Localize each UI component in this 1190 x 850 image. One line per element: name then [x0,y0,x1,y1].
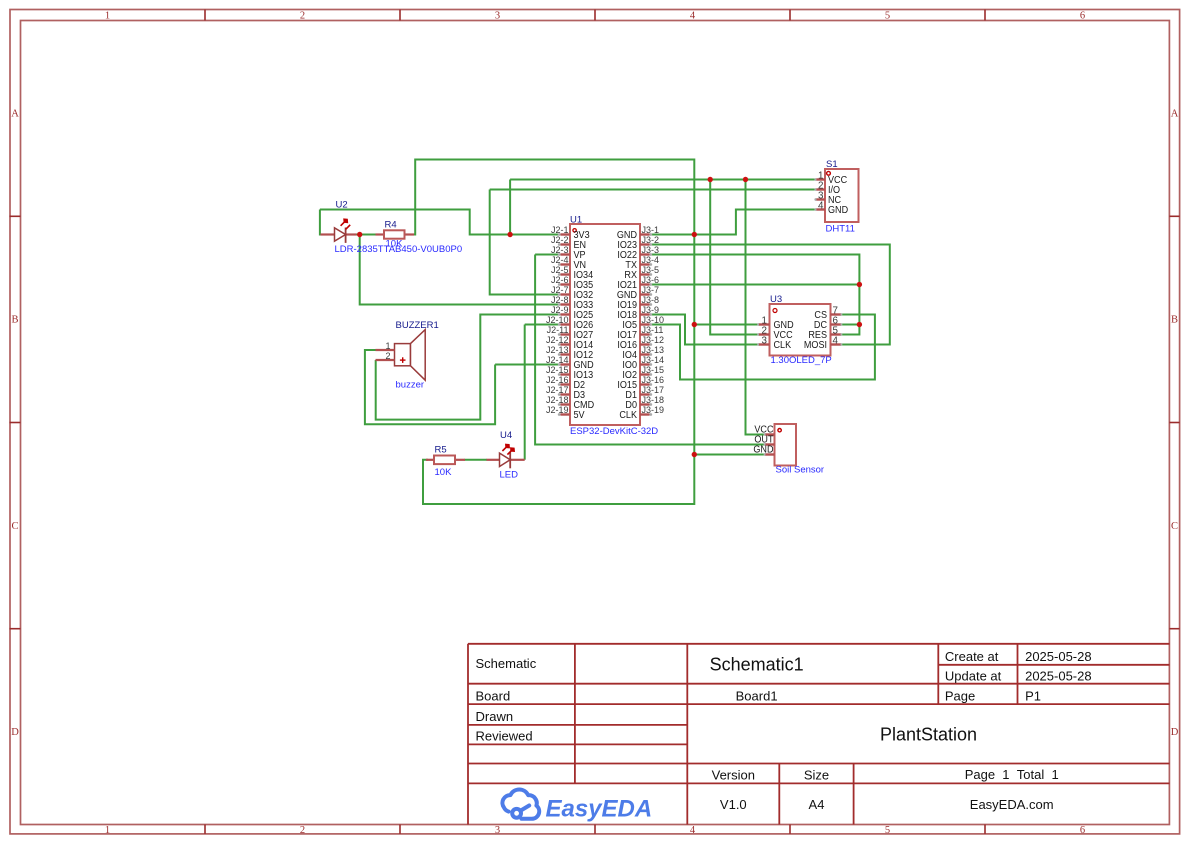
svg-text:J2-14: J2-14 [546,355,569,365]
svg-text:J2-12: J2-12 [546,335,569,345]
S1 pin 3 (NC) [814,190,841,206]
svg-text:EasyEDA.com: EasyEDA.com [970,797,1054,812]
svg-text:J3-1: J3-1 [642,225,660,235]
wire U3 DC to riser [841,324,860,326]
svg-text:Create at: Create at [945,649,999,664]
svg-text:4: 4 [690,825,696,836]
svg-text:A: A [11,109,19,120]
U1 pin J3-15 (IO2) [622,365,664,381]
U1 pin J3-2 (IO23) [617,235,659,251]
wire IO26 J2-10 wire [525,324,560,326]
U1 pin J2-6 (IO35) [551,275,593,291]
svg-text:LED: LED [500,470,519,481]
svg-text:J2-15: J2-15 [546,365,569,375]
wire VP down to Soil Sensor OUT [535,255,765,445]
wire LDR/R4 node to J2-8 IO33 [360,235,560,305]
svg-text:4: 4 [833,335,839,346]
junction node 3V3 to OLED [708,177,713,182]
U1 pin J2-19 (5V) [546,405,585,421]
svg-text:CLK: CLK [619,409,637,421]
svg-text:DHT11: DHT11 [826,224,855,235]
svg-text:J2-8: J2-8 [551,295,569,305]
svg-text:1: 1 [385,341,390,351]
svg-text:J3-18: J3-18 [642,395,665,405]
U3 pin 5 (RES) [808,325,842,341]
svg-text:J3-5: J3-5 [642,265,660,275]
wire IO5 J3-10 to U3 CS [650,315,875,380]
svg-text:2: 2 [385,351,390,361]
EasyEDA logo cloud [502,789,539,818]
wire R5 to U4 LED [465,459,488,461]
wire VP J2-3 stub wire [535,254,559,256]
U1 pin J3-5 (RX) [624,265,659,281]
svg-text:5V: 5V [574,409,586,421]
junction node GND at U3 [692,322,697,327]
U1 pin J2-18 (CMD) [546,395,594,411]
U1 pin J3-19 (CLK) [619,405,664,421]
U1 pin J2-7 (IO32) [551,285,593,301]
svg-text:J3-9: J3-9 [642,305,660,315]
svg-text:Schematic1: Schematic1 [710,655,804,675]
svg-text:3: 3 [762,335,768,346]
wire 3V3: riser to DHT11 row [509,180,511,235]
wire GND: bus to U3 GND [694,324,759,326]
svg-text:C: C [11,521,18,532]
U3 pin 6 (DC) [814,315,842,331]
U1 pin J3-7 (GND) [617,285,659,301]
svg-text:Schematic: Schematic [476,656,537,671]
U1 pin J2-4 (VN) [551,255,586,271]
wire 3V3: to S1 VCC [510,179,816,181]
svg-text:Drawn: Drawn [476,709,514,724]
U1 pin J3-16 (IO15) [617,375,664,391]
U1 pin J2-17 (D3) [546,385,585,401]
svg-text:B: B [1171,315,1178,326]
svg-text:J3-3: J3-3 [642,245,660,255]
U1 pin J2-12 (IO14) [546,335,594,351]
svg-text:J2-7: J2-7 [551,285,569,295]
svg-text:J3-4: J3-4 [642,255,660,265]
U1 pin J2-16 (D2) [546,375,585,391]
svg-text:5: 5 [885,825,890,836]
U1 pin J3-17 (D1) [625,385,664,401]
wire 3V3: U2 top to J2-1 [320,210,560,235]
resistor R5 [426,456,465,465]
svg-text:J2-11: J2-11 [547,325,569,335]
junction node DC riser [857,322,862,327]
S1 pin 1 (VCC) [814,170,847,186]
svg-text:J2-3: J2-3 [551,245,569,255]
wire IO22 J3-3 to U3 RES [650,255,859,335]
Soil Sensor pin-1 indicator [778,429,781,432]
svg-text:J3-15: J3-15 [642,365,665,375]
junction node LDR/R4/IO33 [357,232,362,237]
svg-text:J3-11: J3-11 [642,325,664,335]
junction node GND at J3-1 [692,232,697,237]
U1 pin J3-4 (TX) [625,255,659,271]
U1 pin J2-10 (IO26) [546,315,593,331]
frame row ticks [10,215,21,217]
wire IO21 J3-6 to riser [650,284,859,286]
svg-text:GND: GND [828,204,848,216]
S1 pin-1 indicator [827,171,831,175]
BUZZER1 pin 2 [376,351,395,361]
svg-text:J2-4: J2-4 [551,255,569,265]
svg-text:1: 1 [105,825,110,836]
U3 pin 4 (MOSI) [804,335,843,351]
svg-text:Page 1 Total 1: Page 1 Total 1 [965,767,1059,782]
junction node 3V3 to soil [743,177,748,182]
wire 3V3: to U3 VCC [710,180,759,335]
junction node IO21/DC [857,282,862,287]
svg-text:Board: Board [476,688,511,703]
svg-text:Soil Sensor: Soil Sensor [776,464,825,475]
svg-text:J3-19: J3-19 [642,405,665,415]
svg-text:P1: P1 [1025,688,1041,703]
svg-text:Size: Size [804,768,829,783]
svg-text:CLK: CLK [774,339,792,351]
resistor R4 [376,230,415,238]
svg-text:2: 2 [300,11,305,22]
svg-text:GND: GND [753,444,773,456]
U1 pin J2-1 (3V3) [551,225,590,241]
Soil Sensor pin GND [753,444,774,456]
wire GND: bus down to R5 [423,455,694,505]
U1 pin J3-10 (IO5) [622,315,664,331]
svg-text:2: 2 [300,825,305,836]
svg-text:U3: U3 [770,294,782,305]
wire LDR cathode to R4 [356,234,376,236]
U1 pin J2-14 (GND) [546,355,594,371]
U1 pin J3-11 (IO17) [617,325,663,341]
LED U2 (LDR-2835TTAB450-V0UB0P0) [321,218,357,243]
svg-text:LDR-2835TTAB450-V0UB0P0: LDR-2835TTAB450-V0UB0P0 [335,244,463,255]
svg-text:J3-17: J3-17 [642,385,665,395]
connector S1 DHT11 body [825,169,859,222]
U1 pin J3-1 (GND) [617,225,659,241]
svg-text:J2-17: J2-17 [546,385,569,395]
svg-text:J2-1: J2-1 [551,225,569,235]
U1 pin J2-8 (IO33) [551,295,593,311]
wire DHT11 I/O down to J2-7 IO32 [490,190,560,295]
wire IO26 down to U4 LED [524,325,526,460]
U3 pin 7 (CS) [814,305,842,321]
svg-text:5: 5 [885,11,890,22]
svg-text:Board1: Board1 [736,688,778,703]
wire GND riser to buzzer pin1 [365,350,495,424]
wire buzzer pin2 to J2-9 IO25 [376,315,560,420]
svg-text:D: D [1171,727,1179,738]
svg-text:J2-13: J2-13 [546,345,569,355]
op-amp U1 ESP32-DevKitC-32D body [570,224,640,425]
svg-text:J3-10: J3-10 [642,315,665,325]
wire IO18 J3-9 to U3 CLK [650,315,759,345]
svg-text:6: 6 [1080,11,1085,22]
wire DHT11 I/O to riser [490,189,817,191]
LED U4 [487,444,525,469]
svg-text:3: 3 [495,825,500,836]
U1 pin J3-14 (IO0) [622,355,664,371]
svg-text:Page: Page [945,688,975,703]
svg-text:4: 4 [818,200,824,211]
U3 pin 2 (VCC) [757,325,793,341]
svg-text:R5: R5 [435,445,447,456]
svg-text:J2-5: J2-5 [551,265,569,275]
U1 pin J3-6 (IO21) [617,275,659,291]
S1 pin 2 (I/O) [814,180,840,196]
U1 pin J3-9 (IO18) [617,305,659,321]
svg-text:J2-9: J2-9 [551,305,569,315]
svg-text:MOSI: MOSI [804,339,827,351]
U1 pin J2-2 (EN) [551,235,586,251]
U1 pin J2-13 (IO12) [546,345,593,361]
junction node 3V3 at J2-1 [507,232,512,237]
svg-text:ESP32-DevKitC-32D: ESP32-DevKitC-32D [570,426,658,437]
wire 3V3: to Soil Sensor VCC [746,180,766,435]
svg-text:J2-18: J2-18 [546,395,569,405]
svg-text:A4: A4 [809,797,825,812]
svg-text:10K: 10K [435,467,453,478]
svg-text:PlantStation: PlantStation [880,725,977,745]
svg-text:U2: U2 [336,199,348,210]
display U3 1.30OLED_7P body [770,304,831,356]
U1 pin J3-13 (IO4) [622,345,664,361]
svg-text:BUZZER1: BUZZER1 [396,320,439,331]
svg-text:J3-2: J3-2 [642,235,660,245]
svg-text:B: B [11,315,18,326]
svg-text:R4: R4 [385,219,397,230]
svg-text:2025-05-28: 2025-05-28 [1025,669,1092,684]
svg-text:Update at: Update at [945,669,1002,684]
svg-text:U4: U4 [500,430,512,441]
wire IO23 J3-2 to U3 MOSI [650,245,890,345]
U3 pin 3 (CLK) [757,335,792,351]
svg-text:J3-6: J3-6 [642,275,660,285]
svg-text:J3-13: J3-13 [642,345,665,355]
svg-text:J3-14: J3-14 [642,355,665,365]
U3 pin-1 indicator [773,309,777,313]
svg-text:C: C [1171,521,1178,532]
BUZZER1 pin 1 [376,341,395,351]
frame column ticks [204,10,206,21]
U1 pin J3-8 (IO19) [617,295,659,311]
junction node GND at soil [692,452,697,457]
svg-text:J2-2: J2-2 [551,235,569,245]
svg-text:J2-10: J2-10 [546,315,569,325]
svg-text:J3-12: J3-12 [642,335,665,345]
svg-text:J2-16: J2-16 [546,375,569,385]
svg-text:6: 6 [1080,825,1085,836]
buzzer BUZZER1 symbol [395,330,426,381]
svg-text:D: D [11,727,19,738]
wire GND: J3-1 to S1 GND [650,210,817,235]
wire GND: bus to Soil Sensor GND [694,454,765,456]
svg-text:buzzer: buzzer [396,380,425,391]
svg-text:J3-7: J3-7 [642,285,660,295]
sensor Soil Sensor body [775,424,797,466]
svg-text:Version: Version [712,768,755,783]
U1 pin J3-3 (IO22) [617,245,659,261]
wire GND: R4 right up and across to GND bus [414,160,695,455]
U1 pin J2-9 (IO25) [551,305,593,321]
wire 3V3: down to U2 anode [320,210,322,235]
svg-text:V1.0: V1.0 [720,797,747,812]
svg-text:4: 4 [690,11,696,22]
svg-text:S1: S1 [826,159,838,170]
U1 pin-1 indicator [573,229,576,232]
U1 pin J2-3 (VP) [551,245,586,261]
U1 pin J2-15 (IO13) [546,365,593,381]
U1 pin J3-12 (IO16) [617,335,664,351]
svg-text:3: 3 [495,11,500,22]
U3 pin 1 (GND) [757,315,794,331]
Soil Sensor pin OUT [754,434,774,446]
svg-text:1.30OLED_7P: 1.30OLED_7P [771,355,832,366]
svg-text:U1: U1 [570,214,582,225]
U1 pin J2-5 (IO34) [551,265,594,281]
svg-text:EasyEDA: EasyEDA [546,796,653,823]
svg-text:J2-19: J2-19 [546,405,569,415]
Soil Sensor pin VCC [754,424,774,436]
svg-text:J2-6: J2-6 [551,275,569,285]
U1 pin J2-11 (IO27) [547,325,593,341]
S1 pin 4 (GND) [814,200,848,216]
svg-text:J3-16: J3-16 [642,375,665,385]
svg-text:J3-8: J3-8 [642,295,660,305]
svg-text:A: A [1171,109,1179,120]
wire GND J2-14 to riser [495,364,559,366]
svg-text:Reviewed: Reviewed [476,729,533,744]
U1 pin J3-18 (D0) [625,395,664,411]
svg-text:2025-05-28: 2025-05-28 [1025,649,1092,664]
title block grid [468,644,1170,825]
svg-text:1: 1 [105,11,110,22]
